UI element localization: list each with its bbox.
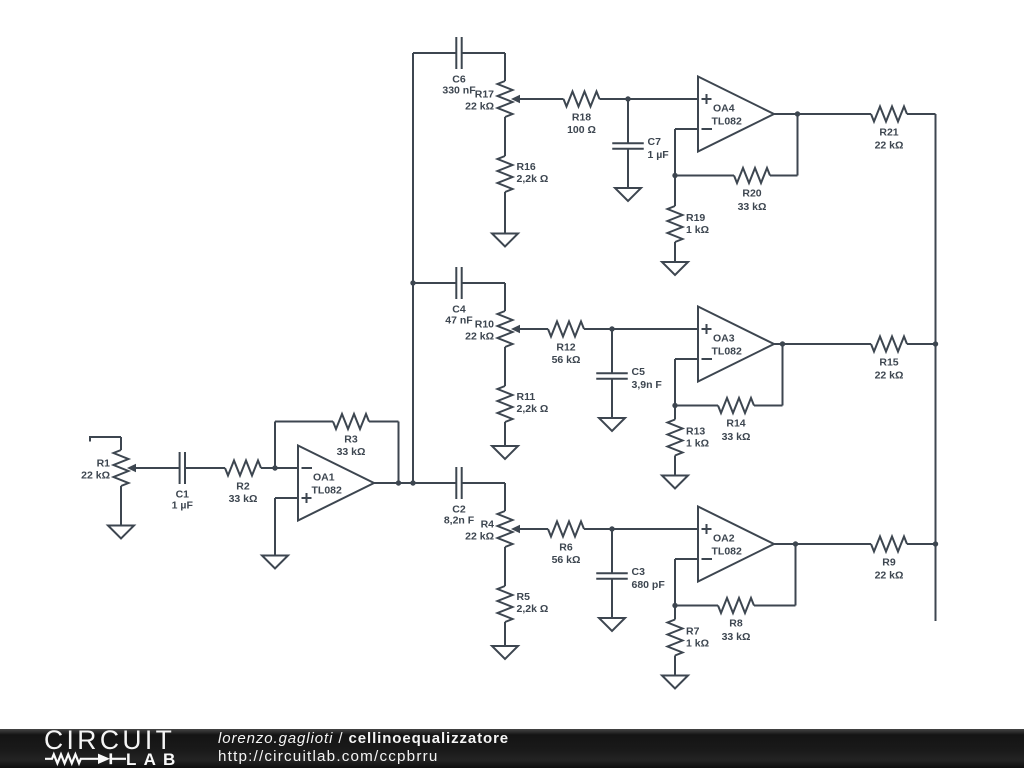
capacitor C5 bbox=[596, 366, 662, 391]
node right bus at R9 bbox=[933, 541, 938, 546]
capacitor C1 bbox=[172, 452, 194, 511]
svg-text:22 kΩ: 22 kΩ bbox=[465, 531, 494, 543]
wire R17 to R16 bbox=[504, 117, 506, 156]
wire R15 to right bus bbox=[907, 343, 936, 345]
footer author / title text bbox=[218, 731, 509, 746]
wire R10 to R11 bbox=[504, 347, 506, 386]
svg-text:R21: R21 bbox=[879, 127, 898, 139]
wire down to R4 bbox=[504, 483, 506, 511]
wire R21 to right bus bbox=[907, 113, 936, 115]
wire OA4 output to R21 bbox=[774, 113, 871, 115]
svg-text:OA2: OA2 bbox=[713, 533, 735, 545]
potentiometer R4 bbox=[465, 511, 520, 547]
svg-text:100 Ω: 100 Ω bbox=[567, 124, 596, 136]
potentiometer R1 bbox=[81, 450, 136, 486]
wire R9 to right bus bbox=[907, 543, 936, 545]
wire R17 wiper to R18 bbox=[518, 98, 564, 100]
resistor R21 bbox=[871, 107, 907, 152]
wire down to R17 bbox=[504, 53, 506, 81]
wire down to R10 bbox=[504, 283, 506, 311]
op-amp OA3 bbox=[698, 307, 774, 382]
node right bus at R15 bbox=[933, 341, 938, 346]
svg-text:R19: R19 bbox=[686, 212, 705, 224]
resistor R9 bbox=[871, 537, 907, 582]
node shunt C3 junction bbox=[609, 526, 614, 531]
wire C7 to ground bbox=[627, 149, 629, 188]
potentiometer R10 bbox=[465, 311, 520, 347]
wire node to C7 bbox=[627, 99, 629, 143]
svg-text:33 kΩ: 33 kΩ bbox=[229, 493, 258, 505]
wire R13 to ground bbox=[674, 456, 676, 476]
CircuitLab logo resistor-diode glyph bbox=[0, 729, 200, 768]
svg-text:22 kΩ: 22 kΩ bbox=[875, 140, 904, 152]
ground below C3 bbox=[599, 618, 625, 631]
svg-text:2,2k Ω: 2,2k Ω bbox=[517, 603, 549, 615]
potentiometer R17 bbox=[465, 81, 520, 117]
svg-text:OA4: OA4 bbox=[713, 103, 735, 115]
svg-text:1 kΩ: 1 kΩ bbox=[686, 638, 709, 650]
wire OA4 inverting input bbox=[675, 129, 698, 176]
wire OA1 output line bbox=[374, 482, 456, 484]
resistor R2 bbox=[225, 461, 261, 506]
svg-text:TL082: TL082 bbox=[312, 485, 343, 497]
resistor R7 bbox=[668, 620, 710, 656]
node OA4 output bbox=[795, 111, 800, 116]
capacitor C7 bbox=[612, 136, 669, 161]
wire R1 to ground bbox=[120, 486, 122, 526]
resistor R3 bbox=[333, 414, 369, 458]
wire R4 wiper to R6 bbox=[518, 528, 548, 530]
wire R19 to ground bbox=[674, 242, 676, 262]
wire C1 to R2 bbox=[185, 467, 225, 469]
wire R18 to op-amp OA4 bbox=[600, 98, 699, 100]
node at OA1 inverting input bbox=[272, 465, 277, 470]
resistor R6 bbox=[548, 522, 584, 567]
svg-text:1 kΩ: 1 kΩ bbox=[686, 224, 709, 236]
wire feedback riser to R3 bbox=[275, 422, 333, 469]
node OA2 output bbox=[793, 541, 798, 546]
resistor R14 bbox=[718, 398, 754, 443]
wire R1 wiper to C1 bbox=[134, 467, 180, 469]
svg-text:56 kΩ: 56 kΩ bbox=[552, 354, 581, 366]
svg-text:C5: C5 bbox=[632, 366, 646, 378]
svg-text:2,2k Ω: 2,2k Ω bbox=[517, 403, 549, 415]
svg-text:TL082: TL082 bbox=[712, 116, 743, 128]
svg-text:R7: R7 bbox=[686, 626, 700, 638]
wire R4 to R5 bbox=[504, 547, 506, 586]
wire R7 to ground bbox=[674, 656, 676, 676]
wire R2 to OA1 inverting input bbox=[261, 467, 298, 469]
wire R3 to OA1 output bbox=[369, 422, 399, 484]
wire feedback node to R19 bbox=[674, 176, 676, 207]
svg-text:22 kΩ: 22 kΩ bbox=[875, 370, 904, 382]
svg-text:R4: R4 bbox=[481, 519, 495, 531]
svg-text:R2: R2 bbox=[236, 481, 250, 493]
node feedback junction bbox=[672, 403, 677, 408]
resistor R18 bbox=[564, 92, 600, 137]
svg-text:8,2n F: 8,2n F bbox=[444, 514, 475, 526]
wire node to C5 bbox=[611, 329, 613, 373]
resistor R8 bbox=[718, 598, 754, 643]
wire R11 to ground bbox=[504, 422, 506, 446]
capacitor C4 bbox=[445, 267, 473, 326]
ground below R16 bbox=[492, 234, 518, 247]
wire C5 to ground bbox=[611, 379, 613, 418]
svg-text:47 nF: 47 nF bbox=[445, 314, 473, 326]
wire OA1 non-inverting input to ground bbox=[275, 498, 298, 556]
svg-text:33 kΩ: 33 kΩ bbox=[337, 446, 366, 458]
op-amp OA1 bbox=[298, 446, 374, 521]
svg-text:680 pF: 680 pF bbox=[632, 579, 666, 591]
node shunt C7 junction bbox=[625, 96, 630, 101]
capacitor C2 bbox=[444, 467, 475, 526]
resistor R20 bbox=[734, 168, 770, 213]
CircuitLab logo wordmark CIRCUIT bbox=[44, 727, 175, 754]
wire C3 to ground bbox=[611, 579, 613, 618]
wire node to C3 bbox=[611, 529, 613, 573]
svg-text:2,2k Ω: 2,2k Ω bbox=[517, 173, 549, 185]
svg-text:R5: R5 bbox=[517, 591, 531, 603]
wire left bus vertical bbox=[412, 53, 414, 483]
ground below R19 bbox=[662, 262, 688, 275]
svg-text:R9: R9 bbox=[882, 557, 896, 569]
svg-text:R11: R11 bbox=[517, 391, 536, 403]
svg-text:33 kΩ: 33 kΩ bbox=[738, 201, 767, 213]
resistor R19 bbox=[668, 206, 710, 242]
op-amp OA4 bbox=[698, 77, 774, 152]
ground below R5 bbox=[492, 646, 518, 659]
ground below R11 bbox=[492, 446, 518, 459]
svg-text:22 kΩ: 22 kΩ bbox=[465, 101, 494, 113]
ground below R7 bbox=[662, 676, 688, 689]
wire bus to C6 bbox=[413, 52, 505, 54]
wire feedback node to R13 bbox=[674, 406, 676, 420]
ground below C7 bbox=[615, 188, 641, 201]
svg-text:R17: R17 bbox=[475, 89, 494, 101]
ground below C5 bbox=[599, 418, 625, 431]
svg-text:R8: R8 bbox=[729, 618, 743, 630]
svg-text:R12: R12 bbox=[556, 342, 575, 354]
resistor R13 bbox=[668, 420, 710, 456]
svg-text:3,9n F: 3,9n F bbox=[632, 379, 663, 391]
node shunt C5 junction bbox=[609, 326, 614, 331]
node OA1 output to band bus bbox=[410, 480, 415, 485]
svg-text:R16: R16 bbox=[517, 161, 536, 173]
svg-text:1 kΩ: 1 kΩ bbox=[686, 438, 709, 450]
node OA1 output feedback junction bbox=[396, 480, 401, 485]
CircuitLab logo wordmark LAB bbox=[126, 751, 183, 768]
wire R10 wiper to R12 bbox=[518, 328, 548, 330]
svg-text:C3: C3 bbox=[632, 566, 646, 578]
svg-text:OA3: OA3 bbox=[713, 333, 735, 345]
wire feedback net OA3 bbox=[675, 344, 783, 406]
svg-text:R3: R3 bbox=[344, 434, 358, 446]
svg-text:R13: R13 bbox=[686, 426, 705, 438]
svg-text:R20: R20 bbox=[742, 188, 761, 200]
node feedback junction bbox=[672, 603, 677, 608]
svg-text:33 kΩ: 33 kΩ bbox=[722, 431, 751, 443]
ground below R1 bbox=[108, 526, 134, 539]
node feedback junction bbox=[672, 173, 677, 178]
svg-text:22 kΩ: 22 kΩ bbox=[465, 331, 494, 343]
svg-text:33 kΩ: 33 kΩ bbox=[722, 631, 751, 643]
svg-text:R15: R15 bbox=[879, 357, 898, 369]
resistor R12 bbox=[548, 322, 584, 367]
svg-text:56 kΩ: 56 kΩ bbox=[552, 554, 581, 566]
wire OA2 inverting input bbox=[675, 559, 698, 606]
wire OA3 inverting input bbox=[675, 359, 698, 406]
svg-text:R14: R14 bbox=[726, 418, 745, 430]
svg-text:R18: R18 bbox=[572, 112, 591, 124]
resistor R15 bbox=[871, 337, 907, 382]
svg-text:22 kΩ: 22 kΩ bbox=[875, 570, 904, 582]
ground below OA1 non-inverting input bbox=[262, 556, 288, 569]
wire right summing bus bbox=[935, 114, 937, 621]
wire R6 to op-amp OA2 bbox=[584, 528, 698, 530]
wire bus to C2 bbox=[413, 482, 505, 484]
svg-text:330 nF: 330 nF bbox=[442, 84, 476, 96]
svg-text:R10: R10 bbox=[475, 319, 494, 331]
svg-text:R1: R1 bbox=[97, 458, 111, 470]
wire input stub at R1 top bbox=[90, 436, 121, 450]
svg-text:OA1: OA1 bbox=[313, 472, 335, 484]
svg-text:22 kΩ: 22 kΩ bbox=[81, 470, 110, 482]
svg-text:C7: C7 bbox=[648, 136, 662, 148]
svg-text:TL082: TL082 bbox=[712, 546, 743, 558]
wire feedback net OA4 bbox=[675, 114, 798, 176]
op-amp OA2 bbox=[698, 507, 774, 582]
ground below R13 bbox=[662, 476, 688, 489]
wire OA3 output to R15 bbox=[774, 343, 871, 345]
resistor R11 bbox=[498, 386, 549, 422]
footer url text bbox=[218, 749, 439, 764]
capacitor C6 bbox=[442, 37, 476, 96]
resistor R16 bbox=[498, 156, 549, 192]
wire R16 to ground bbox=[504, 192, 506, 234]
wire bus to C4 bbox=[413, 282, 505, 284]
wire R12 to op-amp OA3 bbox=[584, 328, 698, 330]
svg-text:1 µF: 1 µF bbox=[648, 149, 670, 161]
wire OA2 output to R9 bbox=[774, 543, 871, 545]
resistor R5 bbox=[498, 586, 549, 622]
svg-text:1 µF: 1 µF bbox=[172, 499, 194, 511]
wire feedback net OA2 bbox=[675, 544, 796, 606]
wire R5 to ground bbox=[504, 622, 506, 646]
svg-text:R6: R6 bbox=[559, 542, 573, 554]
node left bus at C4 branch bbox=[410, 280, 415, 285]
svg-text:TL082: TL082 bbox=[712, 346, 743, 358]
wire feedback node to R7 bbox=[674, 606, 676, 620]
node OA3 output bbox=[780, 341, 785, 346]
capacitor C3 bbox=[596, 566, 665, 591]
